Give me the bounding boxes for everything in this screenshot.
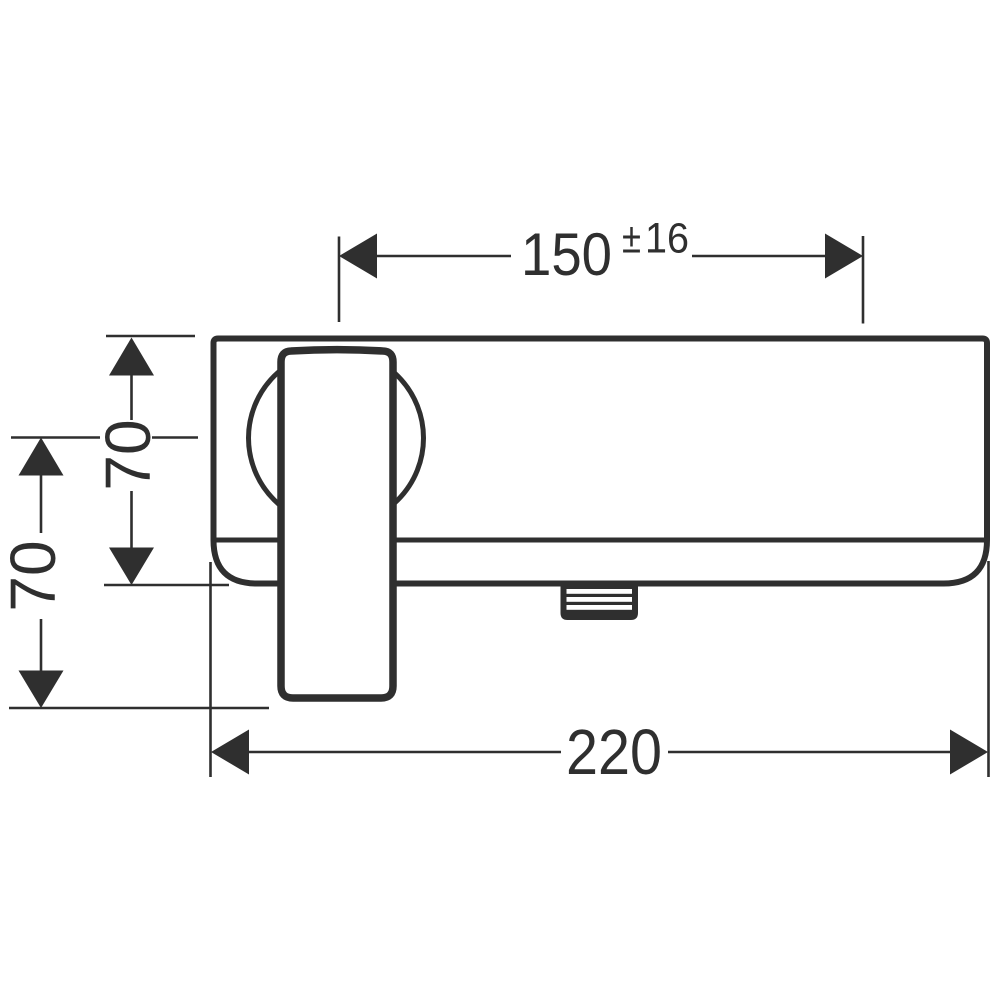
dim220 line left segment	[249, 751, 561, 754]
hose connector	[561, 584, 639, 620]
dim150 line right segment	[692, 255, 826, 258]
svg-text:16: 16	[645, 215, 689, 263]
escutcheon circle	[249, 351, 424, 526]
dim70 outer line lower segment	[40, 619, 43, 671]
dim150 line left segment	[375, 255, 511, 258]
svg-text:220: 220	[566, 716, 662, 788]
dim150 right extension line	[862, 236, 865, 324]
dim220 right arrow	[950, 730, 988, 775]
lever handle	[281, 350, 393, 698]
hose connector slot 2	[567, 597, 633, 602]
dim220 right extension line	[987, 561, 990, 777]
svg-text:±: ±	[622, 215, 641, 263]
dim70 inner top extension line	[106, 335, 195, 338]
dim70 inner bottom extension line	[104, 584, 229, 587]
svg-text:150: 150	[521, 221, 612, 288]
dim70 inner up arrow	[109, 338, 154, 376]
dim70 outer top extension line right part	[152, 436, 198, 439]
dim150 right arrow	[825, 234, 863, 279]
dim70 outer line upper segment	[40, 474, 43, 533]
dim150 left arrow	[339, 234, 377, 279]
dim70 inner line upper segment	[130, 374, 133, 420]
dim70 outer up arrow	[19, 438, 64, 476]
svg-text:70: 70	[0, 540, 69, 611]
dim70 outer down arrow	[19, 671, 64, 709]
body front-plate inner line	[215, 538, 987, 543]
dim70 inner line lower segment	[130, 491, 133, 548]
mixer body outline	[214, 339, 988, 584]
hose connector slot 1	[567, 589, 633, 594]
dim220 line right segment	[668, 751, 950, 754]
dim220 left arrow	[211, 730, 249, 775]
dim70 outer bottom extension line	[9, 707, 269, 710]
dim70 outer top extension line left part	[11, 436, 100, 439]
svg-text:70: 70	[92, 419, 164, 490]
hose connector slot 3	[567, 605, 633, 610]
dim220 left extension line	[209, 562, 212, 777]
dim150 left extension line	[338, 237, 341, 323]
dim70 inner down arrow	[109, 548, 154, 586]
